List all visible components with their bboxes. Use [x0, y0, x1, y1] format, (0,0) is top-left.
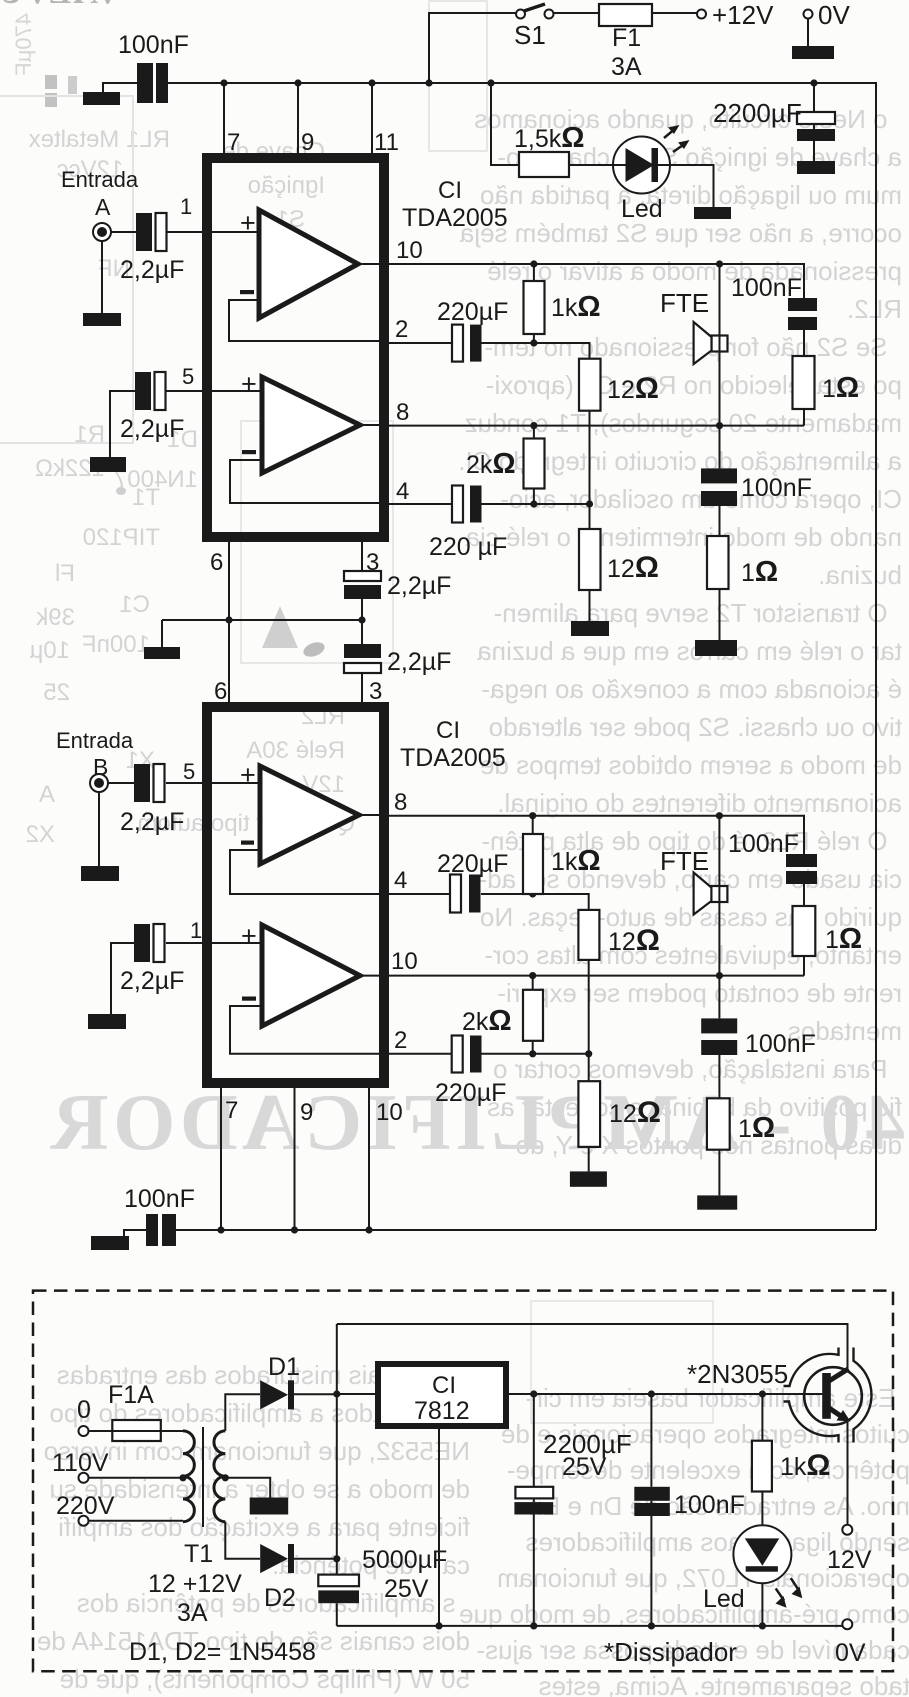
svg-text:3A: 3A	[611, 53, 642, 81]
svg-text:1: 1	[190, 918, 202, 943]
svg-text:25V: 25V	[562, 1453, 607, 1481]
svg-text:100nF: 100nF	[741, 474, 812, 502]
svg-text:6: 6	[214, 678, 227, 705]
svg-text:100nF: 100nF	[118, 31, 189, 59]
svg-text:12Ω: 12Ω	[608, 924, 660, 957]
svg-text:8: 8	[396, 399, 409, 426]
svg-text:CI: CI	[432, 1372, 456, 1399]
svg-text:7: 7	[227, 129, 240, 156]
svg-text:8: 8	[394, 789, 407, 816]
svg-text:6: 6	[210, 549, 223, 576]
svg-text:3: 3	[369, 678, 382, 705]
svg-text:12Ω: 12Ω	[609, 1096, 661, 1129]
svg-text:9: 9	[301, 129, 314, 156]
svg-text:5: 5	[183, 759, 195, 784]
svg-text:TDA2005: TDA2005	[400, 744, 506, 772]
svg-text:Led: Led	[621, 195, 663, 223]
svg-text:100nF: 100nF	[674, 1491, 745, 1519]
svg-text:2,2µF: 2,2µF	[120, 808, 184, 836]
svg-text:100nF: 100nF	[731, 274, 802, 302]
svg-text:*Dissipador: *Dissipador	[604, 1637, 737, 1667]
svg-text:2,2µF: 2,2µF	[387, 572, 451, 600]
svg-text:1Ω: 1Ω	[822, 372, 859, 404]
svg-text:2,2µF: 2,2µF	[120, 967, 184, 995]
svg-text:2,2µF: 2,2µF	[387, 648, 451, 676]
svg-text:0V: 0V	[835, 1639, 866, 1667]
svg-text:1Ω: 1Ω	[741, 556, 778, 588]
svg-text:+: +	[240, 760, 256, 790]
svg-text:220µF: 220µF	[437, 850, 508, 878]
svg-text:1kΩ: 1kΩ	[551, 845, 601, 877]
svg-text:Entrada: Entrada	[61, 167, 139, 192]
svg-text:B: B	[93, 754, 108, 780]
svg-text:5: 5	[182, 364, 194, 389]
svg-text:100nF: 100nF	[728, 830, 799, 858]
svg-text:0: 0	[77, 1396, 91, 1424]
svg-text:2kΩ: 2kΩ	[462, 1005, 512, 1037]
svg-text:F1: F1	[612, 24, 641, 52]
svg-text:11: 11	[374, 129, 399, 156]
svg-text:CI: CI	[436, 717, 460, 744]
svg-text:5000µF: 5000µF	[362, 1546, 447, 1574]
svg-text:2kΩ: 2kΩ	[466, 448, 516, 480]
svg-text:1kΩ: 1kΩ	[780, 1449, 830, 1482]
svg-text:+: +	[241, 921, 257, 951]
svg-text:220V: 220V	[56, 1492, 115, 1520]
svg-text:9: 9	[300, 1099, 313, 1126]
svg-text:2: 2	[395, 316, 408, 343]
svg-text:2: 2	[394, 1027, 407, 1054]
svg-text:1Ω: 1Ω	[738, 1112, 775, 1144]
svg-text:3A: 3A	[177, 1599, 208, 1627]
svg-text:12V: 12V	[827, 1546, 872, 1574]
svg-text:Led: Led	[703, 1585, 745, 1613]
svg-text:D1: D1	[268, 1353, 300, 1381]
svg-text:Entrada: Entrada	[56, 728, 134, 753]
svg-text:TDA2005: TDA2005	[402, 204, 508, 232]
svg-text:100nF: 100nF	[124, 1185, 195, 1213]
svg-text:220µF: 220µF	[435, 1079, 506, 1107]
svg-text:4: 4	[394, 867, 407, 894]
svg-text:3: 3	[366, 549, 379, 576]
svg-text:1Ω: 1Ω	[825, 923, 862, 955]
svg-text:2,2µF: 2,2µF	[120, 256, 184, 284]
svg-text:0V: 0V	[818, 0, 850, 30]
svg-text:7: 7	[225, 1097, 238, 1124]
svg-text:12Ω: 12Ω	[607, 372, 659, 405]
svg-text:2,2µF: 2,2µF	[120, 415, 184, 443]
svg-text:+: +	[241, 369, 257, 399]
svg-text:A: A	[95, 194, 111, 220]
svg-text:FTE: FTE	[660, 846, 709, 876]
svg-text:1kΩ: 1kΩ	[551, 291, 601, 323]
svg-text:4: 4	[396, 478, 409, 505]
svg-text:1: 1	[180, 194, 192, 219]
svg-text:100nF: 100nF	[745, 1030, 816, 1058]
svg-text:12 +12V: 12 +12V	[148, 1570, 242, 1598]
svg-text:D1, D2= 1N5458: D1, D2= 1N5458	[129, 1638, 316, 1666]
svg-text:10: 10	[376, 1099, 403, 1126]
svg-text:S1: S1	[514, 20, 546, 50]
svg-text:F1A: F1A	[108, 1381, 154, 1409]
svg-text:7812: 7812	[414, 1397, 470, 1425]
svg-text:D2: D2	[264, 1584, 296, 1612]
svg-text:+12V: +12V	[712, 0, 774, 30]
svg-text:*2N3055: *2N3055	[687, 1359, 788, 1389]
svg-text:T1: T1	[184, 1540, 213, 1568]
svg-text:220µF: 220µF	[437, 298, 508, 326]
svg-text:1,5kΩ: 1,5kΩ	[514, 122, 585, 154]
svg-text:12Ω: 12Ω	[607, 551, 659, 584]
svg-text:110V: 110V	[52, 1449, 109, 1477]
svg-text:220 µF: 220 µF	[429, 533, 507, 561]
svg-text:25V: 25V	[384, 1575, 429, 1603]
svg-text:2200µF: 2200µF	[713, 98, 802, 128]
svg-text:10: 10	[391, 948, 418, 975]
svg-text:+: +	[240, 208, 256, 238]
svg-text:FTE: FTE	[660, 288, 709, 318]
svg-text:CI: CI	[438, 177, 462, 204]
svg-text:10: 10	[396, 237, 423, 264]
